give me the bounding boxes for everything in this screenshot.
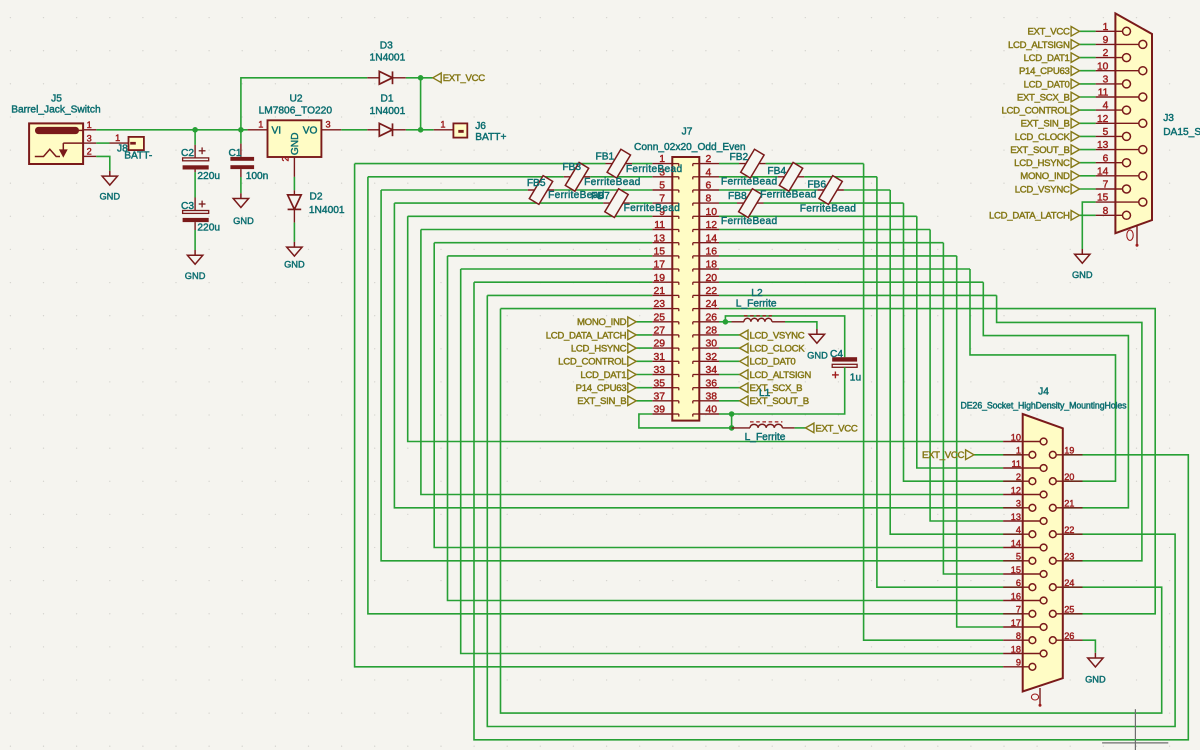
svg-text:15: 15 (653, 247, 665, 258)
wire J7 pin 15 down and to J4 (448, 256, 1004, 601)
wire label LCD_HSYNC to J3 (1080, 162, 1096, 164)
svg-text:30: 30 (706, 339, 718, 350)
pin 34 of J7 (699, 374, 719, 376)
global label LCD_DAT0 (740, 357, 748, 367)
svg-text:EXT_SCX_B: EXT_SCX_B (750, 383, 803, 394)
global label MONO_IND (628, 317, 636, 327)
svg-text:FerriteBead: FerriteBead (800, 204, 857, 215)
pin 2 of J5 (83, 155, 96, 157)
wire J5 pin1 to U2 VI rail (96, 129, 247, 131)
svg-text:11: 11 (654, 220, 665, 231)
wire label LCD_CONTROL to J7 pin 31 (636, 360, 652, 362)
pin 13 of J7 (652, 242, 672, 244)
capacitor C2 220u (194, 130, 196, 145)
wire J7 pin 4 down to J4 (877, 177, 1003, 587)
global label LCD_DATA_LATCH (628, 330, 636, 340)
svg-text:EXT_VCC: EXT_VCC (922, 450, 965, 461)
global label LCD_CONTROL (628, 357, 636, 367)
svg-text:25: 25 (1064, 605, 1074, 615)
wire J7 pin 5 to FB5 (554, 189, 652, 191)
wire J7 pin 5 down and to J4 (381, 190, 1003, 561)
svg-text:LCD_DAT1: LCD_DAT1 (580, 370, 626, 381)
pin 6 of J7 (699, 189, 719, 191)
svg-text:FerriteBead: FerriteBead (624, 203, 681, 214)
svg-text:220u: 220u (197, 223, 220, 234)
global label LCD_VSYNC (740, 330, 748, 340)
ground under C1 (240, 193, 242, 198)
svg-text:6: 6 (1016, 578, 1021, 588)
svg-text:34: 34 (706, 365, 718, 376)
pin 9 of J7 (652, 215, 672, 217)
svg-text:GND: GND (99, 192, 120, 202)
junction at J7 pin 40 (729, 411, 735, 417)
svg-text:LCD_CONTROL: LCD_CONTROL (558, 357, 627, 368)
svg-text:15: 15 (1011, 565, 1021, 575)
wire label LCD_VSYNC to J3 (1080, 188, 1096, 190)
connector J8 BATT- (110, 142, 129, 144)
pin 6 of J4 (1003, 586, 1029, 588)
svg-text:J7: J7 (682, 126, 693, 137)
wire label LCD_CLOCK to J3 (1080, 135, 1096, 137)
global label LCD_DAT0 at J3 (1071, 79, 1079, 89)
wire J7 pin 9 left (408, 215, 653, 217)
pin 29 of J7 (652, 347, 672, 349)
wire pin40 junction down to L1 row (731, 414, 733, 428)
shield pin 0 of J3 (1136, 226, 1138, 245)
wire FB3 to left bus (368, 176, 564, 178)
pin 13 of J4 (1003, 520, 1040, 522)
pin 8 of J3 (1096, 214, 1123, 216)
svg-text:11: 11 (1011, 459, 1021, 469)
svg-text:1u: 1u (850, 372, 861, 383)
pin 14 of J7 (699, 242, 719, 244)
wire J7 pin 28 to label LCD_VSYNC (719, 334, 740, 336)
svg-text:LCD_DAT1: LCD_DAT1 (1024, 53, 1070, 64)
global label EXT_SOUT_B (740, 396, 748, 406)
svg-text:12: 12 (1097, 114, 1109, 125)
pin 18 of J4 (1003, 653, 1040, 655)
svg-text:GND: GND (233, 216, 254, 226)
svg-text:U2: U2 (289, 94, 302, 105)
pin 16 of J4 (1003, 600, 1040, 602)
svg-text:BATT-: BATT- (124, 151, 152, 162)
svg-text:1N4001: 1N4001 (309, 205, 345, 216)
pin 12 of J7 (699, 229, 719, 231)
wire J7 pin 23 around bottom to J4 pin 24 (501, 309, 1162, 713)
svg-text:3: 3 (87, 133, 92, 143)
svg-text:FerriteBead: FerriteBead (584, 177, 641, 188)
svg-text:DA15_S: DA15_S (1163, 127, 1200, 138)
pin 5 of J3 (1096, 135, 1123, 137)
pin 14 of J4 (1003, 547, 1040, 549)
wire J7 pin 13 left (434, 242, 652, 244)
wire J7 pin 16 down to J4 (957, 256, 1003, 627)
svg-text:LCD_CLOCK: LCD_CLOCK (1015, 132, 1071, 143)
pin 7 of J4 (1003, 613, 1029, 615)
svg-text:21: 21 (1064, 499, 1074, 509)
svg-text:GND: GND (290, 132, 301, 155)
svg-text:FerriteBead: FerriteBead (721, 177, 778, 188)
svg-text:3: 3 (1103, 75, 1109, 86)
wire label LCD_DAT0 to J3 (1080, 83, 1096, 85)
svg-text:11: 11 (1098, 88, 1109, 99)
pin 40 of J7 (699, 413, 719, 415)
wire FB5 to left bus (381, 189, 528, 191)
pin 33 of J7 (652, 374, 672, 376)
wire L2 to ground (785, 322, 817, 329)
svg-text:LM7806_TO220: LM7806_TO220 (259, 106, 333, 117)
svg-text:1N4001: 1N4001 (370, 106, 406, 117)
svg-text:4: 4 (1016, 525, 1021, 535)
svg-text:EXT_VCC: EXT_VCC (815, 423, 858, 434)
global label EXT_SCX_B at J3 (1071, 92, 1079, 102)
pin 21 of J4 (1056, 507, 1082, 509)
wire L1 to EXT_VCC (795, 427, 806, 429)
pin 23 of J4 (1056, 560, 1082, 562)
svg-text:23: 23 (653, 299, 665, 310)
pin 10 of J4 (1003, 441, 1040, 443)
global label LCD_ALTSIGN (740, 370, 748, 380)
svg-text:J4: J4 (1038, 386, 1049, 397)
wire J7 pin 34 to label LCD_ALTSIGN (719, 374, 740, 376)
global label EXT_VCC at J4 pin 1 (974, 454, 1003, 456)
svg-text:38: 38 (706, 391, 718, 402)
pin 17 of J4 (1003, 626, 1040, 628)
pin 4 of J4 (1003, 533, 1029, 535)
svg-text:FB5: FB5 (527, 178, 546, 189)
pin 12 of J4 (1003, 494, 1040, 496)
svg-text:C1: C1 (228, 148, 241, 159)
junction at D3 output (418, 75, 424, 81)
global label LCD_HSYNC at J3 (1071, 158, 1079, 168)
pin 10 of J3 (1096, 70, 1139, 72)
pin 11 of J7 (652, 229, 672, 231)
ground under D2 (293, 242, 295, 247)
svg-text:4: 4 (706, 167, 712, 178)
pin 8 of J4 (1003, 639, 1029, 641)
svg-text:27: 27 (653, 326, 665, 337)
wire J7 pin 40 (719, 413, 732, 415)
svg-text:17: 17 (1011, 618, 1021, 628)
svg-text:LCD_DAT0: LCD_DAT0 (750, 357, 796, 368)
wire J7 pin 18 to J4 pin 20 (970, 269, 1116, 481)
pin 3 of J4 (1003, 507, 1029, 509)
wire J7 pin 11 left (421, 229, 652, 231)
ground at L2 (816, 329, 818, 334)
wire J4 pin 26 to ground (1083, 640, 1096, 653)
wire J7 pin 39 to L1 (639, 414, 732, 428)
svg-text:C3: C3 (181, 201, 194, 212)
svg-text:FB4: FB4 (767, 166, 786, 177)
ground under C3 (194, 250, 196, 255)
pin 17 of J7 (652, 268, 672, 270)
svg-text:12: 12 (1011, 485, 1021, 495)
pin 4 of J3 (1096, 109, 1123, 111)
svg-text:13: 13 (1011, 512, 1021, 522)
wire J7 pin 17 down and to J4 (461, 269, 1003, 654)
wire J5 pin2 to ground (96, 156, 110, 171)
wire label LCD_DAT1 to J7 pin 33 (636, 374, 652, 376)
pin 13 of J3 (1096, 149, 1139, 151)
junction at J7 pin 26 (723, 319, 729, 325)
pin 26 of J7 (699, 321, 719, 323)
wire C4 bottom to J7 pin 40 row (732, 367, 845, 414)
svg-text:D2: D2 (310, 191, 323, 202)
svg-text:13: 13 (1097, 140, 1109, 151)
wire FB6 to right bus (844, 189, 890, 191)
pin 25 of J4 (1056, 613, 1082, 615)
svg-text:12: 12 (706, 220, 718, 231)
wire J7 pin 3 to FB3 (590, 176, 652, 178)
svg-text:18: 18 (706, 260, 718, 271)
capacitor C1 100n (240, 130, 242, 144)
wire J7 pin 18 right (719, 268, 970, 270)
pin 18 of J7 (699, 268, 719, 270)
svg-text:33: 33 (653, 365, 665, 376)
wire J7 pin 17 left (461, 268, 653, 270)
svg-text:L_Ferrite: L_Ferrite (745, 432, 786, 443)
wire label MONO_IND to J3 (1080, 175, 1096, 177)
global label LCD_CLOCK at J3 (1071, 132, 1079, 142)
pin 26 of J4 (1056, 639, 1082, 641)
svg-text:LCD_CONTROL: LCD_CONTROL (1001, 106, 1070, 117)
wire J7 pin 19 around bottom to J4 pin 19 (474, 282, 1188, 740)
global label LCD_DATA_LATCH at J3 (1071, 211, 1079, 221)
pin 28 of J7 (699, 334, 719, 336)
svg-text:LCD_ALTSIGN: LCD_ALTSIGN (750, 370, 812, 381)
svg-text:EXT_SOUT_B: EXT_SOUT_B (1010, 145, 1069, 156)
wire J7 pin 21 left (487, 294, 652, 296)
svg-text:7: 7 (1016, 605, 1021, 615)
svg-text:1: 1 (440, 120, 445, 130)
svg-text:5: 5 (659, 181, 665, 192)
svg-text:LCD_ALTSIGN: LCD_ALTSIGN (1008, 40, 1070, 51)
svg-text:24: 24 (1064, 578, 1074, 588)
svg-text:EXT_SCX_B: EXT_SCX_B (1017, 92, 1070, 103)
pin 3 of U2 (321, 129, 341, 131)
pin 30 of J7 (699, 347, 719, 349)
svg-text:5: 5 (1103, 127, 1109, 138)
wire J7 pin 2 down to J4 (864, 164, 1004, 641)
pin 10 of J7 (699, 215, 719, 217)
wire rail up to D3 (241, 78, 367, 130)
svg-text:FB1: FB1 (596, 151, 615, 162)
inductor L1 L_Ferrite (732, 427, 750, 429)
svg-text:2: 2 (87, 147, 92, 157)
shield pin 0 of J4 (1039, 688, 1041, 705)
svg-text:19: 19 (1064, 446, 1074, 456)
svg-text:9: 9 (1103, 35, 1109, 46)
svg-text:C2: C2 (181, 148, 194, 159)
svg-text:D1: D1 (380, 93, 393, 104)
svg-text:L_Ferrite: L_Ferrite (736, 299, 777, 310)
svg-text:EXT_SIN_B: EXT_SIN_B (577, 396, 626, 407)
ferrite bead FB2 (739, 163, 766, 165)
pin 4 of J7 (699, 176, 719, 178)
svg-text:8: 8 (1016, 631, 1021, 641)
connector J3 DA15_S (1115, 13, 1152, 233)
svg-text:DE26_Socket_HighDensity_Mounti: DE26_Socket_HighDensity_MountingHoles (961, 400, 1128, 410)
wire J7 pin 10 down to J4 (917, 216, 1003, 468)
svg-text:D3: D3 (380, 41, 393, 52)
wire J7 pin 7 down and to J4 (394, 203, 1003, 508)
pin 21 of J7 (652, 294, 672, 296)
wire J7 pin 3 down and to J4 (368, 177, 1003, 614)
svg-text:26: 26 (1064, 631, 1074, 641)
pin 7 of J3 (1096, 188, 1123, 190)
svg-text:20: 20 (706, 273, 718, 284)
svg-text:220u: 220u (197, 171, 220, 182)
wire J7 pin 12 right (719, 229, 930, 231)
pin 39 of J7 (652, 413, 672, 415)
pin 24 of J7 (699, 308, 719, 310)
wire J7 pin 14 down to J4 (943, 243, 1003, 574)
svg-text:LCD_DAT0: LCD_DAT0 (1024, 79, 1070, 90)
wire J7 pin 36 to label EXT_SCX_B (719, 387, 740, 389)
wire label LCD_DATA_LATCH to J7 pin 27 (636, 334, 652, 336)
ferrite bead FB7 (603, 202, 630, 204)
svg-text:J3: J3 (1163, 113, 1174, 124)
svg-text:BATT+: BATT+ (475, 132, 506, 143)
svg-text:L1: L1 (759, 388, 771, 399)
pin 27 of J7 (652, 334, 672, 336)
svg-text:22: 22 (1064, 525, 1074, 535)
svg-text:40: 40 (706, 405, 718, 416)
svg-text:13: 13 (653, 233, 665, 244)
svg-text:15: 15 (1097, 193, 1109, 204)
pin 25 of J7 (652, 321, 672, 323)
wire label EXT_SIN_B to J3 (1080, 122, 1096, 124)
svg-text:16: 16 (706, 247, 718, 258)
wire FB4 to right bus (804, 176, 877, 178)
svg-text:3: 3 (1016, 499, 1021, 509)
wire label LCD_DAT1 to J3 (1080, 57, 1096, 59)
svg-text:21: 21 (653, 286, 665, 297)
ferrite bead FB5 (528, 189, 554, 191)
svg-text:FerriteBead: FerriteBead (760, 190, 817, 201)
wire J7 pin 10 right (719, 215, 917, 217)
pin 11 of J3 (1096, 96, 1139, 98)
pin 22 of J4 (1056, 533, 1082, 535)
wire J7 pin 23 left (501, 308, 653, 310)
pin 11 of J4 (1003, 467, 1040, 469)
svg-text:EXT_VCC: EXT_VCC (443, 73, 486, 84)
pin 6 of J3 (1096, 162, 1123, 164)
wire J7 pin 4 to FB4 (719, 176, 778, 178)
pin 1 of J5 (83, 129, 96, 131)
svg-text:6: 6 (1103, 153, 1109, 164)
wire J7 pin26 junction to C4 top (725, 316, 844, 357)
pin 23 of J7 (652, 308, 672, 310)
svg-text:7: 7 (1103, 180, 1109, 191)
pin 2 of U2 (293, 157, 295, 177)
wire J7 pin 30 to label LCD_CLOCK (719, 347, 740, 349)
svg-text:37: 37 (653, 391, 665, 402)
svg-text:3: 3 (326, 120, 331, 130)
pin 12 of J3 (1096, 122, 1139, 124)
svg-text:EXT_SIN_B: EXT_SIN_B (1021, 119, 1070, 130)
svg-text:FB2: FB2 (730, 152, 749, 163)
wire label EXT_SCX_B to J3 (1080, 96, 1096, 98)
pin 5 of J7 (652, 189, 672, 191)
global label LCD_DAT1 (628, 370, 636, 380)
wire label P14_CPU63 to J3 (1080, 70, 1096, 72)
wire J7 pin 1 to FB1 (632, 163, 652, 165)
svg-text:MONO_IND: MONO_IND (1020, 171, 1070, 182)
global label EXT_SIN_B (628, 396, 636, 406)
wire EXT_VCC down to D1 output (420, 78, 422, 130)
junction at D1 output (418, 127, 424, 133)
wire J7 pin 21 around bottom to J4 pin 22 (487, 295, 1175, 726)
ground at J4 (1094, 653, 1096, 658)
wire J7 pin 8 to FB8 (719, 202, 737, 204)
wire J7 pin 13 down and to J4 (434, 243, 1003, 548)
svg-text:4: 4 (1103, 101, 1109, 112)
cursor crosshair (1102, 742, 1168, 744)
wire FB2 to right bus (766, 163, 864, 165)
wire label EXT_SIN_B to J7 pin 37 (636, 400, 652, 402)
pin 37 of J7 (652, 400, 672, 402)
svg-text:100n: 100n (246, 171, 269, 182)
pin 5 of J4 (1003, 560, 1029, 562)
svg-text:24: 24 (706, 299, 718, 310)
ferrite bead FB1 (606, 163, 633, 165)
wire J7 pin 20 right (719, 281, 983, 283)
ferrite bead FB4 (778, 176, 804, 178)
svg-text:GND: GND (284, 259, 305, 269)
svg-text:2: 2 (1016, 472, 1021, 482)
svg-text:31: 31 (653, 352, 665, 363)
svg-text:9: 9 (1016, 658, 1021, 668)
wire U2 VO to D1 (341, 129, 367, 131)
pin 35 of J7 (652, 387, 672, 389)
wire label LCD_HSYNC to J7 pin 29 (636, 347, 652, 349)
svg-text:2: 2 (1103, 48, 1109, 59)
svg-text:1: 1 (258, 120, 263, 130)
svg-text:8: 8 (706, 194, 712, 205)
svg-text:10: 10 (1011, 432, 1021, 442)
wire J5 pin3 to J8 (96, 142, 109, 144)
wire C1 to ground (240, 169, 242, 177)
pin 32 of J7 (699, 360, 719, 362)
svg-text:5: 5 (1016, 552, 1021, 562)
svg-text:VO: VO (303, 125, 318, 136)
ferrite bead FB3 (564, 176, 590, 178)
svg-text:39: 39 (653, 405, 665, 416)
wire J3 pin 15 to ground (1082, 202, 1095, 249)
svg-text:25: 25 (653, 312, 665, 323)
pin 3 of J7 (652, 176, 672, 178)
svg-text:LCD_HSYNC: LCD_HSYNC (1014, 158, 1070, 169)
connector J6 BATT+ (434, 129, 454, 131)
svg-text:LCD_DATA_LATCH: LCD_DATA_LATCH (546, 330, 627, 341)
wire label P14_CPU63 to J7 pin 35 (636, 387, 652, 389)
junction at L1 (729, 425, 735, 431)
svg-text:FB3: FB3 (562, 162, 581, 173)
svg-text:GND: GND (1085, 674, 1106, 684)
svg-text:VI: VI (272, 125, 282, 136)
svg-text:MONO_IND: MONO_IND (577, 317, 627, 328)
svg-text:FerriteBead: FerriteBead (548, 190, 605, 201)
svg-text:1: 1 (87, 120, 92, 130)
wire J7 pin 14 right (719, 242, 943, 244)
global label EXT_VCC at J3 (1071, 27, 1079, 37)
wire J7 pin 32 to label LCD_DAT0 (719, 360, 740, 362)
svg-text:FerriteBead: FerriteBead (626, 164, 683, 175)
junction at C1 top (238, 127, 244, 133)
svg-text:35: 35 (653, 378, 665, 389)
ferrite bead FB8 (737, 202, 764, 204)
